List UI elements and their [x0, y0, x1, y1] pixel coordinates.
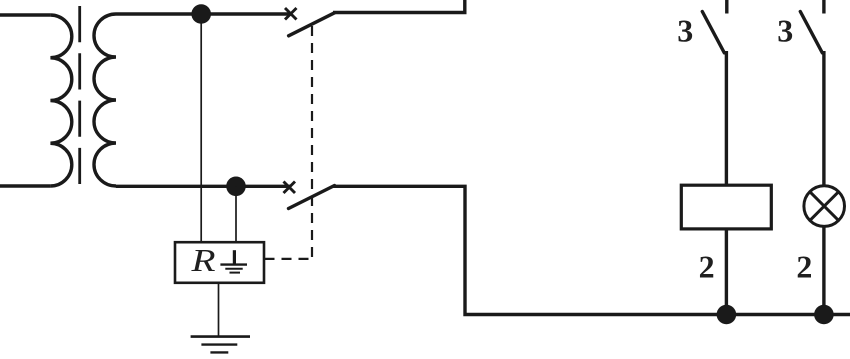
contact stub branch 2: [822, 0, 825, 14]
breaker blade bottom (open switch): [289, 186, 335, 209]
svg-text:R: R: [190, 242, 216, 278]
lamp HL: [804, 186, 845, 227]
breaker contact x-mark top: [285, 8, 297, 20]
switch blade branch 1: [702, 12, 724, 53]
wire thin from relay box to earth: [218, 283, 220, 336]
transformer secondary winding: [94, 14, 116, 186]
wire thin from bottom node down to relay box: [235, 186, 237, 242]
transformer primary winding: [50, 15, 71, 186]
wire branch 1 lower: [725, 229, 728, 315]
wire bottom-left lead: [0, 184, 50, 187]
relay box R: [175, 242, 264, 283]
svg-text:3: 3: [677, 13, 693, 49]
node junction dot branch 2: [814, 305, 834, 325]
node junction dot bottom: [226, 177, 246, 197]
relay coil K: [681, 185, 771, 229]
contact stub branch 1: [725, 0, 728, 14]
wire top from secondary to breaker contact: [116, 12, 291, 15]
wire branch 2 lower: [822, 227, 825, 314]
breaker contact x-mark bottom: [284, 182, 296, 194]
mechanical linkage dashed vertical: [311, 26, 313, 259]
svg-text:2: 2: [699, 250, 715, 285]
wire bottom-right run down and across bottom: [333, 186, 850, 314]
earth ground symbol: [191, 337, 250, 353]
wire top-left lead: [0, 13, 50, 16]
wire bottom from secondary to breaker contact: [116, 185, 291, 188]
wire top-right with corner up to edge: [333, 0, 465, 13]
switch blade branch 2: [800, 12, 822, 53]
wire branch 2 upper: [822, 51, 825, 186]
node junction dot branch 1: [717, 305, 737, 325]
svg-text:2: 2: [796, 250, 812, 285]
wire thin from top node down to relay box: [200, 14, 202, 242]
mechanical linkage dashed horizontal to relay box: [265, 258, 313, 260]
node junction dot top: [191, 4, 211, 24]
transformer core (dashed): [78, 6, 81, 184]
breaker blade top (open switch): [289, 13, 335, 36]
earth symbol inside relay box: [220, 250, 247, 272]
svg-text:3: 3: [777, 13, 793, 49]
wire branch 1 upper: [725, 51, 728, 185]
